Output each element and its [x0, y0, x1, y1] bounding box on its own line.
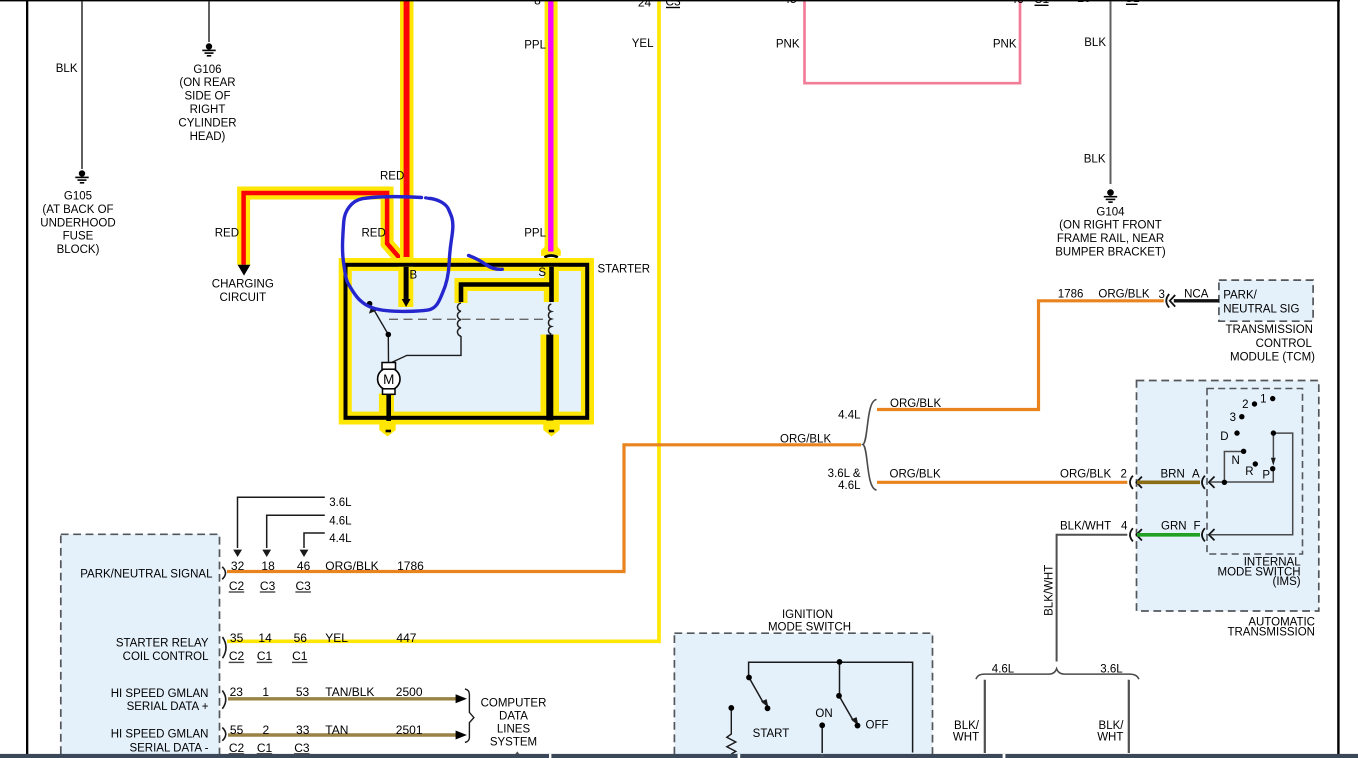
svg-text:START: START	[753, 728, 790, 740]
svg-text:(ON RIGHT FRONT: (ON RIGHT FRONT	[1059, 220, 1162, 232]
svg-text:LINES: LINES	[497, 723, 531, 735]
svg-text:C2: C2	[229, 649, 245, 663]
svg-text:NCA: NCA	[1184, 289, 1209, 301]
svg-text:S: S	[538, 267, 546, 279]
svg-text:C1: C1	[257, 741, 273, 755]
svg-text:G104: G104	[1096, 206, 1125, 218]
svg-text:BLK/: BLK/	[954, 720, 980, 732]
svg-text:R: R	[1245, 466, 1253, 478]
svg-text:(AT BACK OF: (AT BACK OF	[42, 204, 113, 216]
svg-text:SYSTEM: SYSTEM	[490, 736, 537, 748]
svg-text:56: 56	[294, 631, 308, 645]
svg-text:MODE SWITCH: MODE SWITCH	[768, 622, 851, 634]
svg-text:C1: C1	[292, 649, 308, 663]
svg-text:2501: 2501	[396, 723, 423, 737]
svg-text:4.4L: 4.4L	[838, 410, 861, 422]
svg-text:C2: C2	[229, 741, 245, 755]
svg-text:PARK/: PARK/	[1223, 289, 1257, 301]
svg-text:G105: G105	[64, 191, 92, 203]
svg-text:COIL CONTROL: COIL CONTROL	[123, 651, 209, 663]
svg-text:HEAD): HEAD)	[190, 131, 226, 143]
svg-text:UNDERHOOD: UNDERHOOD	[40, 217, 115, 229]
svg-text:C1: C1	[257, 649, 273, 663]
svg-text:DATA: DATA	[499, 710, 528, 722]
svg-text:RIGHT: RIGHT	[190, 104, 226, 116]
svg-text:55: 55	[230, 723, 244, 737]
svg-text:NEUTRAL SIG: NEUTRAL SIG	[1223, 304, 1299, 316]
svg-text:32: 32	[231, 559, 245, 573]
svg-text:A: A	[1192, 469, 1200, 481]
svg-text:CYLINDER: CYLINDER	[178, 117, 236, 129]
svg-text:OFF: OFF	[866, 719, 889, 731]
svg-text:B: B	[410, 270, 418, 282]
svg-text:BLK: BLK	[56, 63, 78, 75]
svg-text:COMPUTER: COMPUTER	[481, 697, 547, 709]
svg-text:ORG/BLK: ORG/BLK	[325, 559, 378, 573]
svg-text:2: 2	[263, 723, 270, 737]
svg-text:BUMPER BRACKET): BUMPER BRACKET)	[1055, 246, 1166, 258]
svg-text:33: 33	[296, 723, 310, 737]
svg-text:C3: C3	[294, 741, 310, 755]
svg-text:CIRCUIT: CIRCUIT	[219, 292, 266, 304]
svg-text:HI SPEED GMLAN: HI SPEED GMLAN	[111, 688, 209, 700]
svg-text:SIDE OF: SIDE OF	[184, 91, 230, 103]
svg-text:3: 3	[1159, 289, 1165, 301]
svg-text:HI SPEED GMLAN: HI SPEED GMLAN	[111, 729, 209, 741]
svg-text:BLK/WHT: BLK/WHT	[1060, 521, 1111, 533]
svg-text:CONTROL: CONTROL	[1256, 338, 1313, 350]
svg-text:RED: RED	[380, 171, 404, 183]
svg-text:4.4L: 4.4L	[329, 533, 352, 545]
svg-text:IGNITION: IGNITION	[782, 609, 833, 621]
svg-text:RED: RED	[215, 227, 239, 239]
svg-text:YEL: YEL	[632, 38, 654, 50]
svg-text:WHT: WHT	[1097, 732, 1123, 744]
svg-text:SERIAL DATA -: SERIAL DATA -	[129, 742, 208, 754]
svg-text:ORG/BLK: ORG/BLK	[890, 468, 941, 480]
svg-text:TRANSMISSION: TRANSMISSION	[1225, 324, 1313, 336]
svg-text:4.6L: 4.6L	[329, 516, 352, 528]
svg-text:1786: 1786	[1058, 289, 1084, 301]
svg-text:P: P	[1262, 470, 1270, 482]
svg-text:G106: G106	[193, 64, 221, 76]
svg-text:ORG/BLK: ORG/BLK	[780, 434, 831, 446]
svg-text:C2: C2	[229, 579, 245, 593]
svg-text:SERIAL DATA +: SERIAL DATA +	[127, 701, 209, 713]
svg-text:4.6L: 4.6L	[992, 663, 1015, 675]
svg-text:STARTER: STARTER	[598, 264, 651, 276]
svg-text:1786: 1786	[397, 559, 424, 573]
svg-text:BLK/WHT: BLK/WHT	[1044, 565, 1056, 616]
svg-text:YEL: YEL	[325, 631, 348, 645]
svg-text:F: F	[1194, 521, 1201, 533]
svg-text:3.6L: 3.6L	[1100, 663, 1123, 675]
svg-text:ORG/BLK: ORG/BLK	[890, 398, 941, 410]
svg-text:CHARGING: CHARGING	[212, 279, 274, 291]
svg-text:PNK: PNK	[776, 39, 800, 51]
svg-text:M: M	[383, 372, 394, 387]
svg-text:4: 4	[1121, 521, 1128, 533]
svg-text:ORG/BLK: ORG/BLK	[1060, 468, 1111, 480]
svg-text:ON: ON	[815, 708, 832, 720]
svg-text:BLK/: BLK/	[1099, 720, 1125, 732]
svg-text:3: 3	[1230, 412, 1236, 424]
svg-text:PNK: PNK	[993, 39, 1017, 51]
svg-text:TAN/BLK: TAN/BLK	[325, 685, 374, 699]
svg-text:2: 2	[1242, 399, 1248, 411]
svg-text:BLK: BLK	[1084, 37, 1106, 49]
svg-text:MODULE (TCM): MODULE (TCM)	[1230, 352, 1315, 364]
svg-text:PPL: PPL	[524, 227, 546, 239]
svg-text:1: 1	[1260, 393, 1266, 405]
svg-text:TAN: TAN	[325, 723, 348, 737]
svg-text:14: 14	[258, 631, 272, 645]
svg-text:FUSE: FUSE	[63, 231, 94, 243]
svg-text:2500: 2500	[396, 685, 423, 699]
svg-text:N: N	[1231, 455, 1239, 467]
svg-text:TRANSMISSION: TRANSMISSION	[1227, 626, 1315, 638]
svg-text:BLOCK): BLOCK)	[57, 244, 100, 256]
svg-text:C3: C3	[260, 579, 276, 593]
svg-text:GRN: GRN	[1161, 521, 1187, 533]
svg-text:447: 447	[396, 631, 416, 645]
svg-text:3.6L: 3.6L	[329, 497, 352, 509]
svg-text:RED: RED	[362, 227, 386, 239]
svg-text:(ON REAR: (ON REAR	[179, 77, 235, 89]
svg-text:PPL: PPL	[524, 39, 546, 51]
svg-text:2: 2	[1121, 468, 1127, 480]
svg-text:C3: C3	[296, 579, 312, 593]
svg-text:35: 35	[230, 631, 244, 645]
svg-text:FRAME RAIL, NEAR: FRAME RAIL, NEAR	[1057, 233, 1164, 245]
svg-text:ORG/BLK: ORG/BLK	[1098, 289, 1149, 301]
svg-text:PARK/NEUTRAL SIGNAL: PARK/NEUTRAL SIGNAL	[80, 569, 213, 581]
svg-text:3.6L &: 3.6L &	[828, 468, 861, 480]
svg-text:STARTER RELAY: STARTER RELAY	[116, 638, 209, 650]
svg-text:WHT: WHT	[953, 732, 979, 744]
svg-text:D: D	[1220, 431, 1228, 443]
svg-text:(IMS): (IMS)	[1272, 576, 1300, 588]
svg-text:BRN: BRN	[1161, 469, 1185, 481]
svg-text:4.6L: 4.6L	[838, 480, 861, 492]
svg-text:1: 1	[262, 685, 269, 699]
svg-text:BLK: BLK	[1084, 154, 1106, 166]
svg-text:23: 23	[230, 685, 244, 699]
svg-text:46: 46	[297, 559, 311, 573]
svg-text:53: 53	[296, 685, 310, 699]
svg-text:18: 18	[261, 559, 275, 573]
